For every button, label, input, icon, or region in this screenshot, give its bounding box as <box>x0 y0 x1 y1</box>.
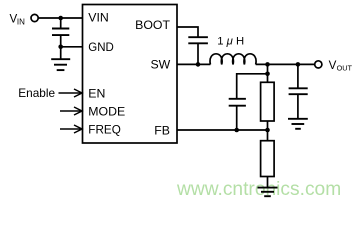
resistor R1 <box>261 74 275 130</box>
svg-text:www.cntronics.com: www.cntronics.com <box>176 179 341 200</box>
terminal VOUT <box>315 61 322 68</box>
svg-text:BOOT: BOOT <box>135 18 170 32</box>
node FB divider junction <box>265 128 270 133</box>
label VIN net <box>10 12 26 26</box>
node SW boot junction <box>196 62 201 67</box>
svg-text:1 μ H: 1 μ H <box>217 35 244 47</box>
wire SW pin to inductor <box>177 63 210 65</box>
capacitor C3 feed-forward <box>229 99 246 130</box>
wire output node down <box>267 64 269 73</box>
ground input <box>51 47 70 70</box>
wire to feed-forward cap <box>237 74 268 99</box>
ground output <box>288 119 308 129</box>
svg-text:FREQ: FREQ <box>88 122 121 136</box>
wire inductor to VOUT <box>256 63 315 65</box>
wire BOOT pin <box>177 27 198 37</box>
node FB ff-cap junction <box>234 128 239 133</box>
node output L junction <box>265 62 270 67</box>
inductor L1 <box>210 54 256 65</box>
node R1 top junction <box>265 72 270 77</box>
IC U1 (DC-DC converter) <box>83 5 178 144</box>
svg-text:OUT: OUT <box>337 63 353 72</box>
wire to GND pin <box>61 46 83 48</box>
wire VIN terminal to pin <box>38 17 82 19</box>
svg-text:MODE: MODE <box>88 104 125 118</box>
arrow into EN <box>59 89 83 97</box>
svg-text:V: V <box>329 59 337 72</box>
svg-text:SW: SW <box>150 57 170 71</box>
capacitor C1 input <box>52 18 69 47</box>
resistor R2 <box>261 130 275 188</box>
svg-text:FB: FB <box>154 123 170 137</box>
node input cap bottom <box>58 45 63 50</box>
terminal VIN <box>31 14 38 21</box>
arrow into FREQ <box>60 125 82 133</box>
label VOUT net <box>329 59 353 73</box>
svg-text:Enable: Enable <box>18 86 55 100</box>
svg-text:IN: IN <box>17 17 25 26</box>
capacitor C4 output <box>289 64 308 118</box>
svg-text:EN: EN <box>88 86 105 100</box>
svg-text:VIN: VIN <box>88 11 109 25</box>
wire FB pin <box>177 129 268 131</box>
capacitor C2 bootstrap <box>188 37 208 64</box>
ground R2 <box>258 188 278 197</box>
svg-text:GND: GND <box>88 40 114 54</box>
node input cap top <box>58 16 63 21</box>
node output cap junction <box>296 62 301 67</box>
arrow into MODE <box>60 107 82 115</box>
